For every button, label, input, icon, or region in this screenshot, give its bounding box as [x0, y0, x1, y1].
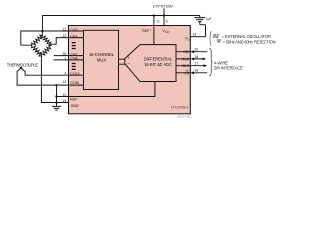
svg-text:REF⁺: REF⁺	[142, 29, 151, 33]
svg-text:16: 16	[194, 69, 198, 73]
svg-text:GND: GND	[71, 104, 79, 108]
svg-text:13: 13	[63, 80, 67, 84]
svg-text:21: 21	[63, 27, 67, 31]
svg-text:9: 9	[166, 20, 168, 24]
svg-text:SCK: SCK	[182, 57, 190, 61]
svg-text:REF⁻: REF⁻	[70, 98, 79, 102]
svg-text:1: 1	[64, 56, 66, 60]
svg-text:SPI INTERFACE: SPI INTERFACE	[214, 66, 243, 71]
svg-text:CS: CS	[184, 71, 190, 75]
svg-text:11: 11	[156, 20, 160, 24]
svg-text:FO: FO	[185, 36, 190, 41]
svg-text:LTC2439-1: LTC2439-1	[171, 105, 189, 109]
svg-text:4: 4	[64, 72, 66, 76]
svg-text:2439 TA01: 2439 TA01	[177, 115, 192, 119]
svg-text:MUX: MUX	[97, 57, 107, 62]
svg-text:SDI: SDI	[183, 50, 189, 54]
svg-text:17: 17	[194, 62, 198, 66]
svg-text:THERMOCOUPLE: THERMOCOUPLE	[7, 63, 39, 68]
svg-text:19: 19	[193, 33, 197, 37]
svg-text:DIFFERENTIAL: DIFFERENTIAL	[144, 56, 173, 61]
svg-text:22: 22	[63, 34, 67, 38]
svg-text:18: 18	[194, 55, 198, 59]
svg-text:VCC: VCC	[162, 29, 169, 34]
svg-text:= EXTERNAL OSCILLATOR: = EXTERNAL OSCILLATOR	[222, 34, 271, 39]
svg-text:2.7V TO 5.5V: 2.7V TO 5.5V	[153, 3, 174, 8]
svg-text:COM: COM	[70, 81, 78, 85]
svg-text:1µF: 1µF	[206, 17, 212, 21]
svg-text:−: −	[127, 61, 130, 66]
svg-text:12: 12	[63, 93, 67, 97]
svg-text:= 50Hz AND 60Hz REJECTION: = 50Hz AND 60Hz REJECTION	[223, 40, 276, 45]
svg-text:15: 15	[63, 99, 67, 103]
svg-text:16-BIT ΔΣ ADC: 16-BIT ΔΣ ADC	[144, 62, 172, 67]
svg-text:SDO: SDO	[182, 64, 190, 68]
svg-text:20: 20	[194, 48, 198, 52]
